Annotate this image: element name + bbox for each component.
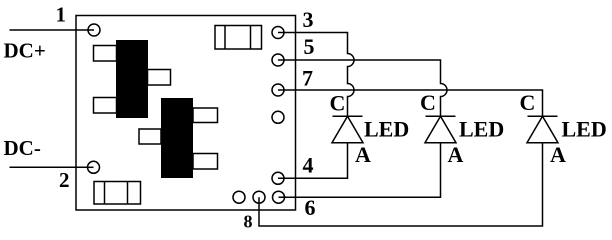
label pin 5 <box>304 34 315 59</box>
label C of LED D3 <box>520 90 536 115</box>
wire pin 5 to LED2 cathode (hops over pin7 wire) <box>278 60 447 116</box>
pin 6 pad circle <box>273 191 285 203</box>
svg-text:3: 3 <box>303 7 314 32</box>
transistor Q2 (SOT package, leads right x2 / left x1) <box>139 98 218 178</box>
LED D2 symbol <box>425 116 456 143</box>
label DC- <box>4 136 41 160</box>
label A of LED D1 <box>355 142 371 167</box>
wire pin 7 to LED3 cathode <box>278 90 543 116</box>
transistor Q1 (SOT package, leads left x2 / right x1) <box>94 40 171 118</box>
label C of LED D1 <box>330 91 346 116</box>
pin 2 pad circle <box>88 161 100 173</box>
pin 5 pad circle <box>272 54 284 66</box>
wire pin 3 to LED1 cathode (hops over pin5 and pin7 wires) <box>278 33 354 117</box>
wire pin 6 to LED2 anode <box>279 142 441 197</box>
label pin 6 <box>305 195 316 220</box>
svg-text:A: A <box>355 142 371 167</box>
wire pin 1 (DC+ input) <box>10 29 95 31</box>
svg-text:6: 6 <box>305 195 316 220</box>
pin 7 pad circle <box>272 84 284 96</box>
svg-text:DC-: DC- <box>4 136 41 160</box>
label LED D2 <box>459 117 504 142</box>
label pin 8 <box>244 212 253 232</box>
svg-text:1: 1 <box>56 3 67 27</box>
svg-text:A: A <box>448 142 464 167</box>
svg-text:7: 7 <box>302 66 313 91</box>
label pin 7 <box>302 66 313 91</box>
label C of LED D2 <box>420 90 436 115</box>
label A of LED D2 <box>448 142 464 167</box>
label pin 2 <box>59 168 70 192</box>
resistor R2 (chip resistor bottom) <box>94 182 141 205</box>
wire pin 8 to LED3 anode (bottom return) <box>259 142 543 226</box>
svg-text:8: 8 <box>244 212 253 232</box>
pin 3 pad circle <box>272 27 284 39</box>
svg-text:5: 5 <box>304 34 315 59</box>
svg-text:DC+: DC+ <box>4 39 46 63</box>
label pin 1 <box>56 3 67 27</box>
label pin 4 <box>303 153 314 178</box>
LED D1 symbol <box>332 116 363 143</box>
wire pin 4 to LED1 anode <box>278 142 348 178</box>
pin 1 pad circle <box>88 24 100 36</box>
svg-text:2: 2 <box>59 168 70 192</box>
svg-text:LED: LED <box>364 117 409 142</box>
svg-text:C: C <box>520 90 536 115</box>
label LED D1 <box>364 117 409 142</box>
svg-text:C: C <box>420 90 436 115</box>
label A of LED D3 <box>550 142 566 167</box>
pin 4 pad circle <box>272 172 284 184</box>
module outline (driver PCB) <box>76 16 296 211</box>
unconnected pad circle <box>272 111 284 123</box>
label DC+ <box>4 39 46 63</box>
wire pin 2 (DC- input) <box>10 166 94 168</box>
label pin 3 <box>303 7 314 32</box>
svg-text:LED: LED <box>562 117 607 142</box>
pin 8 pad circle <box>253 191 265 203</box>
svg-text:4: 4 <box>303 153 314 178</box>
bottom pad circle (unconnected) <box>233 191 245 203</box>
resistor R1 (chip resistor top) <box>215 26 262 50</box>
svg-text:C: C <box>330 91 346 116</box>
svg-text:LED: LED <box>459 117 504 142</box>
LED D3 symbol <box>527 116 558 143</box>
svg-text:A: A <box>550 142 566 167</box>
label LED D3 <box>562 117 607 142</box>
